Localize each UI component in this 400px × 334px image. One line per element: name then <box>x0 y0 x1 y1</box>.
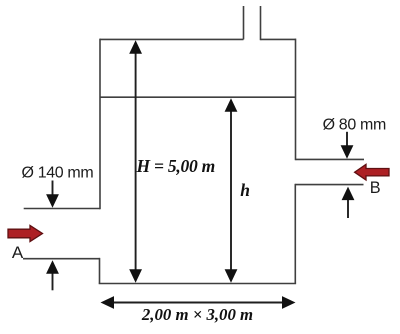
svg-text:B: B <box>370 179 381 197</box>
svg-text:h: h <box>240 180 250 200</box>
inlet B up arrowhead <box>342 187 355 201</box>
dimension H bottom arrowhead <box>129 269 142 283</box>
bottom dimension left arrowhead <box>101 296 115 309</box>
tank left wall upper <box>99 39 101 210</box>
tank right wall lower <box>294 184 296 284</box>
diameter 80 down arrowhead <box>341 145 354 159</box>
inlet B up arrow line <box>347 197 349 218</box>
inlet B top edge <box>296 158 365 160</box>
bottom dimension right arrowhead <box>282 296 296 309</box>
svg-text:A: A <box>12 243 24 262</box>
tank top wall left segment <box>100 38 244 40</box>
dimension h top arrowhead <box>225 98 238 112</box>
tank right wall upper <box>295 39 297 161</box>
dimension h vertical line <box>230 108 232 273</box>
inlet A up arrowhead <box>46 260 59 274</box>
inlet A top edge <box>24 208 100 210</box>
diameter 80 leader line <box>346 132 348 149</box>
dimension h bottom arrowhead <box>225 269 238 283</box>
red flow arrow A <box>8 225 43 241</box>
tank bottom wall <box>99 283 296 285</box>
inlet A up arrow line <box>52 271 54 291</box>
vent pipe left wall <box>243 6 245 39</box>
diameter 140 down arrowhead <box>46 194 59 208</box>
water surface line <box>100 96 296 98</box>
svg-text:Ø 140 mm: Ø 140 mm <box>22 165 94 182</box>
inlet B bottom edge <box>295 184 363 186</box>
inlet A bottom edge <box>23 258 100 260</box>
dimension H top arrowhead <box>129 40 142 54</box>
svg-text:2,00 m × 3,00 m: 2,00 m × 3,00 m <box>141 305 253 324</box>
red flow arrow B <box>355 164 389 180</box>
bottom dimension line <box>110 302 286 304</box>
svg-text:Ø 80 mm: Ø 80 mm <box>323 117 386 134</box>
svg-text:H = 5,00 m: H = 5,00 m <box>136 156 215 176</box>
tank top wall right segment <box>261 38 296 40</box>
dimension H vertical line <box>135 50 137 273</box>
tank left wall lower <box>99 258 101 284</box>
diameter 140 leader line <box>52 181 54 198</box>
vent pipe right wall <box>260 6 262 40</box>
